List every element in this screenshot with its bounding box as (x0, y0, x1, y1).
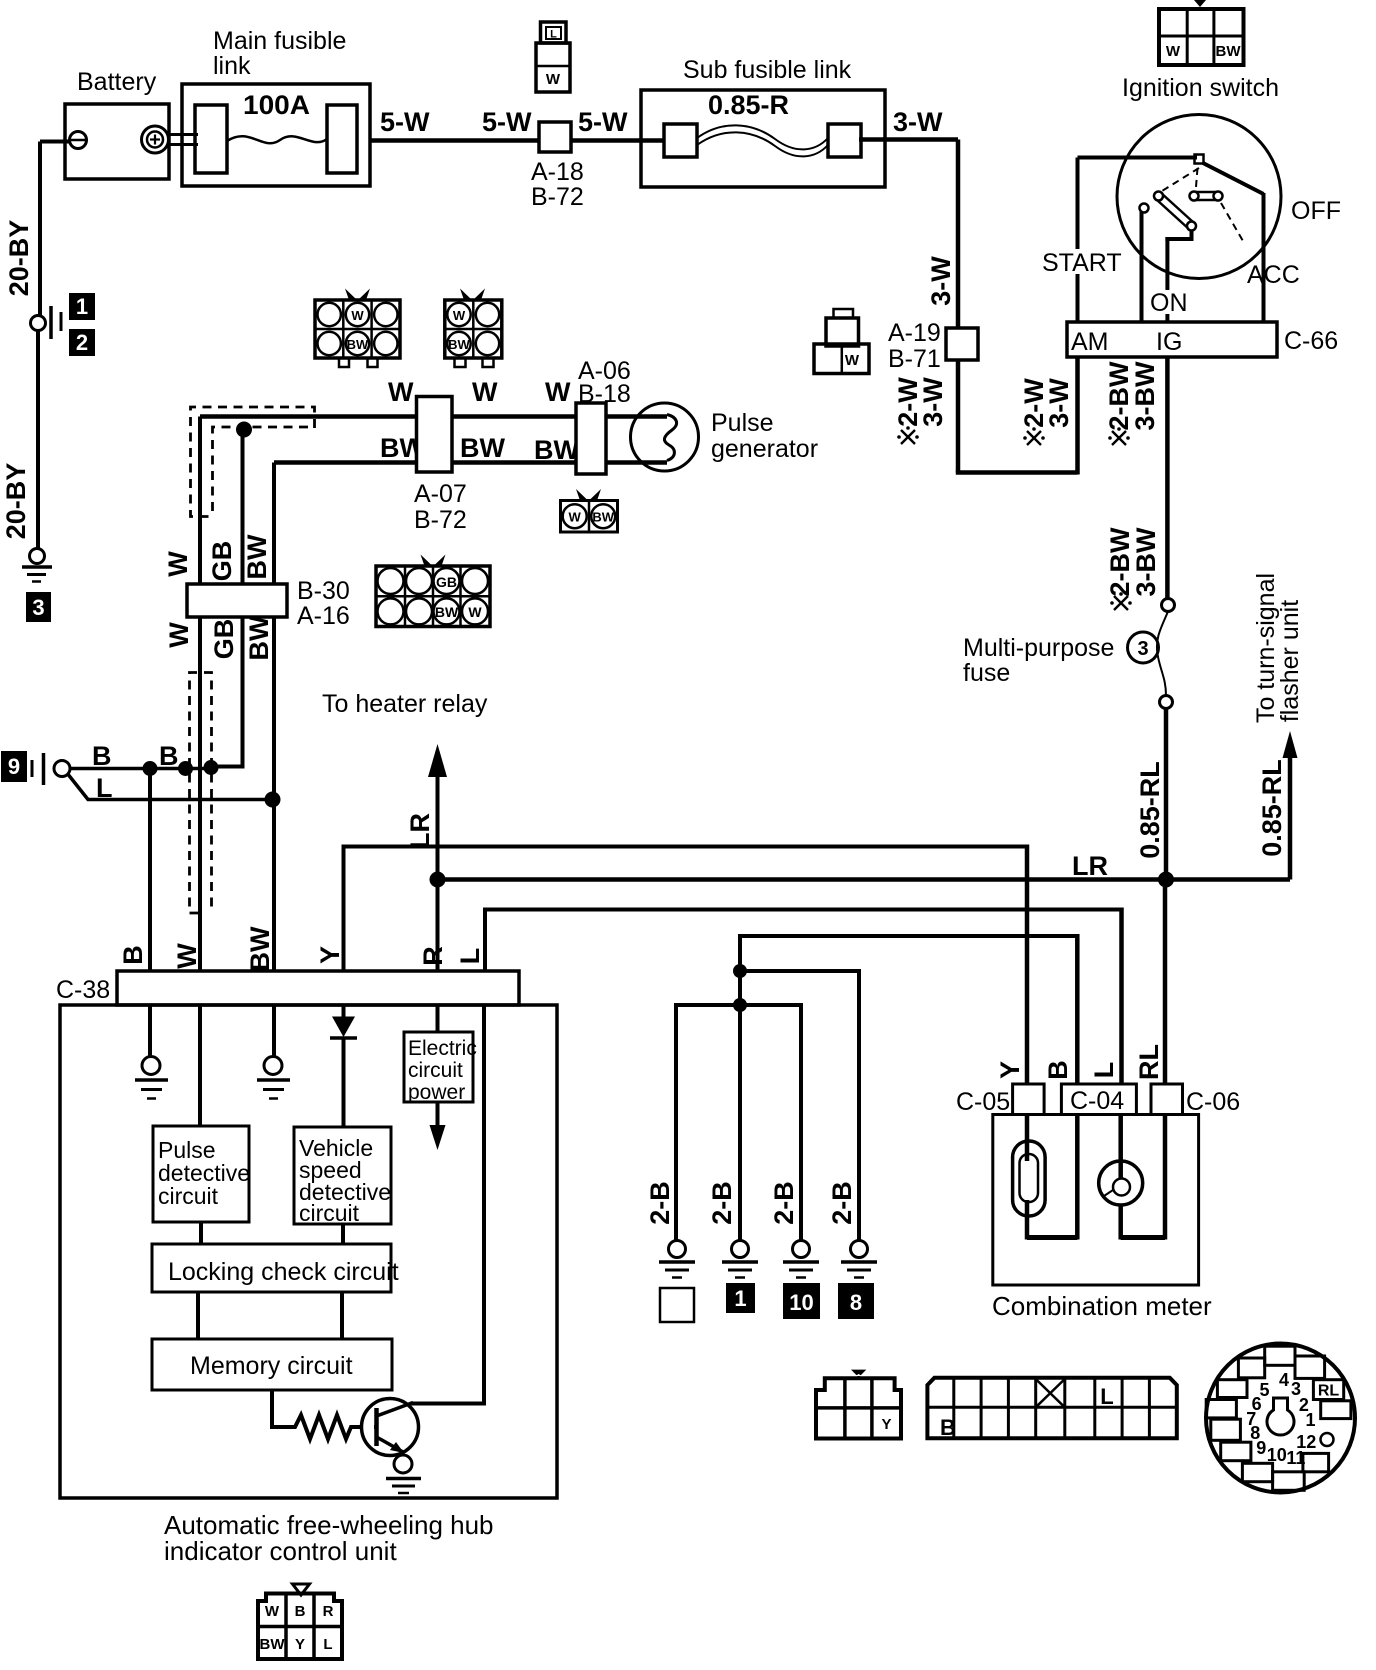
svg-text:W: W (164, 622, 194, 648)
bottom connector Y (3x2) (816, 1370, 901, 1439)
control unit box (60, 1005, 557, 1498)
wire B vertical to C-38 (148, 769, 152, 972)
ignition switch connector grid (1159, 0, 1244, 65)
lamp 1 (indicator) (1013, 1115, 1046, 1240)
svg-text:LR: LR (405, 813, 435, 849)
pulse generator (631, 403, 819, 471)
svg-text:Sub fusible link: Sub fusible link (683, 56, 852, 84)
svg-text:3-BW: 3-BW (1131, 527, 1161, 597)
combination meter box (992, 1115, 1212, 1322)
svg-text:W: W (163, 551, 193, 577)
svg-text:5-W: 5-W (578, 107, 628, 137)
svg-text:2-B: 2-B (827, 1181, 857, 1225)
svg-text:W: W (453, 308, 466, 323)
connector C-38 (56, 971, 519, 1005)
svg-text:2-B: 2-B (645, 1181, 675, 1225)
svg-text:Multi-purpose: Multi-purpose (963, 634, 1114, 662)
svg-text:C-06: C-06 (1186, 1088, 1240, 1116)
svg-text:Y: Y (881, 1416, 891, 1433)
wire ground branch y1005 (676, 1003, 801, 1240)
node B1 (143, 761, 158, 776)
connector C-06 (1151, 1084, 1240, 1116)
ground 10 (783, 1241, 819, 1319)
svg-text:B: B (92, 741, 112, 771)
svg-text:Main fusible: Main fusible (213, 27, 346, 55)
svg-text:BW: BW (347, 337, 369, 352)
lamp 2 (bulb) (1099, 1115, 1143, 1240)
svg-text:OFF: OFF (1291, 197, 1341, 225)
wire L horizontal (485, 908, 1122, 1085)
svg-text:0.85-R: 0.85-R (708, 90, 789, 120)
svg-text:generator: generator (711, 435, 818, 463)
connector A-07 B-72 (414, 397, 467, 535)
ignition switch (1040, 74, 1341, 322)
svg-text:Pulse: Pulse (711, 409, 774, 437)
pulse detective circuit box (153, 1126, 250, 1222)
C-38 terminal labels (118, 926, 485, 971)
wire to heater relay (322, 690, 488, 971)
svg-text:B: B (940, 1415, 956, 1440)
connector grid 3x2 W/BW (315, 289, 400, 368)
svg-text:W: W (388, 377, 414, 407)
svg-text:RL: RL (1318, 1383, 1340, 1400)
svg-text:ACC: ACC (1247, 261, 1300, 289)
battery (40, 68, 198, 179)
label 2-W 3-W left (893, 377, 948, 444)
wire 5-W to sub link (571, 107, 666, 141)
svg-text:L: L (455, 948, 485, 965)
wire RL to meter (1163, 880, 1168, 1085)
svg-text:10: 10 (1267, 1445, 1287, 1465)
svg-text:Electric: Electric (408, 1037, 477, 1060)
svg-text:power: power (408, 1081, 465, 1104)
locking check circuit box (152, 1244, 399, 1292)
lamp 1 return wire (1027, 1115, 1077, 1240)
ground 1/2 (31, 294, 95, 355)
wire Y horizontal (344, 845, 1028, 1085)
connector 2-circle W/BW below A-06 (561, 489, 618, 532)
svg-text:5-W: 5-W (482, 107, 532, 137)
ground 9 (2, 752, 70, 785)
svg-text:BW: BW (448, 337, 470, 352)
svg-text:0.85-RL: 0.85-RL (1135, 761, 1165, 859)
svg-text:C-04: C-04 (1070, 1087, 1124, 1115)
emitter ground (386, 1455, 421, 1493)
2-B ground wires labels (645, 1181, 857, 1225)
memory circuit box (152, 1339, 392, 1390)
svg-text:fuse: fuse (963, 659, 1010, 687)
wire ground branch y971 (740, 969, 859, 1240)
svg-text:BW: BW (592, 510, 614, 525)
meter terminal labels (995, 1044, 1164, 1080)
svg-text:B: B (159, 741, 179, 771)
svg-text:3-W: 3-W (893, 107, 943, 137)
node heater LR junction (430, 872, 446, 888)
svg-text:B-71: B-71 (888, 345, 941, 373)
svg-text:BW: BW (1216, 43, 1242, 60)
svg-text:3: 3 (1137, 638, 1148, 660)
wire 20-BY lower (1, 330, 38, 549)
sub fusible link (641, 56, 885, 187)
svg-text:3-W: 3-W (1044, 378, 1074, 428)
svg-text:BW: BW (245, 926, 275, 971)
svg-text:GB: GB (436, 574, 457, 590)
svg-text:3: 3 (32, 595, 44, 620)
vehicle speed detective circuit box (294, 1127, 391, 1226)
resistor R1 (272, 1390, 374, 1439)
labels W GB BW below B-30 (164, 615, 274, 660)
wire LR horizontal (438, 851, 1291, 881)
svg-text:100A: 100A (243, 90, 310, 120)
svg-text:BW: BW (242, 534, 272, 579)
wire B horizontal (740, 934, 1077, 1240)
svg-text:W: W (468, 604, 482, 620)
svg-text:RL: RL (1134, 1044, 1164, 1080)
node B3 (204, 760, 219, 775)
wire 0.85-RL (1135, 709, 1166, 880)
svg-text:A-19: A-19 (888, 319, 941, 347)
wire 3-W (859, 107, 958, 328)
svg-text:Y: Y (995, 1061, 1025, 1079)
wire to turn-signal flasher unit (1252, 573, 1304, 880)
labels W GB BW above B-30 (163, 534, 272, 581)
svg-text:To heater relay: To heater relay (322, 690, 488, 718)
wire B ground (70, 741, 213, 771)
svg-text:L: L (323, 1636, 332, 1653)
svg-text:LR: LR (1072, 851, 1108, 881)
wire W to pulse detective (198, 1005, 202, 1126)
svg-text:R: R (418, 946, 448, 966)
wire IG down (1105, 357, 1167, 610)
electric circuit power box (404, 1005, 477, 1150)
svg-text:indicator control unit: indicator control unit (164, 1536, 397, 1566)
svg-text:3-W: 3-W (918, 377, 948, 427)
connector C-05 (956, 1084, 1044, 1116)
multi-purpose fuse (963, 599, 1175, 709)
wire VSDC to LCC (341, 1224, 345, 1244)
svg-text:BW: BW (435, 604, 459, 620)
svg-text:20-BY: 20-BY (1, 463, 31, 540)
svg-text:9: 9 (1256, 1438, 1266, 1458)
svg-text:Memory circuit: Memory circuit (190, 1352, 353, 1380)
wire GB (211, 430, 245, 767)
wire L ground (67, 773, 273, 803)
node L-BW junction (265, 792, 281, 808)
svg-text:BW: BW (460, 433, 505, 463)
svg-text:L: L (1089, 1062, 1119, 1079)
label 2-BW 3-BW below C-66 (1104, 361, 1160, 445)
svg-text:W: W (265, 1603, 280, 1620)
bottom connector long (9x2) (927, 1378, 1176, 1440)
svg-text:W: W (351, 308, 364, 323)
svg-text:A-07: A-07 (414, 480, 467, 508)
svg-text:C-05: C-05 (956, 1088, 1010, 1116)
ground A (white box) (659, 1241, 695, 1323)
svg-text:Battery: Battery (77, 68, 157, 96)
svg-text:L: L (1100, 1384, 1113, 1409)
svg-text:IG: IG (1156, 328, 1182, 356)
svg-text:R: R (323, 1603, 334, 1620)
bottom-left connector (W B R / BW Y L) (258, 1584, 342, 1659)
wire 20-BY battery to ground (4, 142, 40, 317)
diode D1 (330, 1005, 357, 1127)
connector B-30 A-16 (187, 577, 350, 630)
svg-text:A-18: A-18 (531, 158, 584, 186)
node GB tap (236, 422, 252, 438)
svg-text:2-B: 2-B (769, 1181, 799, 1225)
connector grid 2x2 W/BW (445, 289, 502, 368)
transistor Q1 (362, 1399, 419, 1456)
lamp 2 return wire (1121, 1115, 1165, 1240)
wire L collector (411, 1005, 484, 1406)
label 2-W 3-W right (1019, 378, 1074, 445)
svg-text:circuit: circuit (299, 1200, 360, 1226)
svg-text:W: W (472, 377, 498, 407)
wires LCC to memory (198, 1292, 342, 1339)
svg-text:BW: BW (534, 435, 579, 465)
connector grid 2x4 GB/BW/W (376, 555, 490, 627)
svg-text:3-W: 3-W (926, 256, 956, 306)
wire 5-W (370, 107, 539, 141)
caption control unit (164, 1510, 494, 1566)
svg-text:Y: Y (315, 946, 345, 964)
svg-text:GB: GB (207, 541, 237, 582)
connector C-04 (1061, 1084, 1136, 1115)
svg-text:L: L (550, 29, 557, 41)
connector C-66 (1067, 322, 1338, 357)
svg-text:W: W (172, 943, 202, 969)
bottom connector round (1206, 1344, 1355, 1493)
svg-text:20-BY: 20-BY (4, 220, 34, 297)
svg-text:C-38: C-38 (56, 976, 110, 1004)
svg-text:3-BW: 3-BW (1130, 361, 1160, 431)
svg-text:2: 2 (76, 330, 88, 355)
svg-text:B: B (1043, 1060, 1073, 1080)
svg-text:B: B (295, 1603, 306, 1620)
node B branch 1 (733, 964, 747, 978)
dashed harness outline upper (191, 407, 315, 517)
svg-text:4: 4 (1279, 1370, 1289, 1390)
svg-text:W: W (546, 71, 561, 88)
connector icon W near A-19 (814, 309, 869, 374)
svg-text:1: 1 (734, 1286, 746, 1311)
wire BW pulse generator (274, 433, 667, 465)
svg-text:5-W: 5-W (380, 107, 430, 137)
ground 3 (22, 549, 52, 622)
svg-text:BW: BW (244, 615, 274, 660)
wire PDC to LCC (199, 1222, 203, 1244)
wire W vertical (198, 417, 202, 972)
svg-text:BW: BW (260, 1636, 286, 1653)
connector A-18 B-72 (531, 122, 584, 211)
svg-text:circuit: circuit (408, 1059, 463, 1082)
svg-text:B: B (118, 945, 148, 965)
svg-text:W: W (845, 352, 860, 369)
svg-text:Y: Y (295, 1636, 305, 1653)
svg-text:1: 1 (1306, 1410, 1316, 1430)
wire B internal ground (135, 1005, 168, 1099)
svg-text:START: START (1042, 249, 1122, 277)
svg-text:W: W (569, 510, 582, 525)
svg-text:Combination meter: Combination meter (992, 1291, 1212, 1321)
main fusible link (182, 27, 370, 186)
svg-text:Locking check circuit: Locking check circuit (168, 1258, 399, 1286)
wire BW internal ground (257, 1005, 290, 1099)
svg-text:GB: GB (209, 619, 239, 660)
svg-text:L: L (96, 773, 113, 803)
svg-text:ON: ON (1150, 289, 1188, 317)
svg-text:W: W (545, 377, 571, 407)
svg-text:Ignition switch: Ignition switch (1122, 74, 1279, 102)
svg-text:B-72: B-72 (531, 183, 584, 211)
svg-text:10: 10 (789, 1290, 813, 1315)
svg-text:circuit: circuit (158, 1183, 219, 1209)
svg-text:AM: AM (1071, 328, 1109, 356)
connector A-19 B-71 (888, 319, 978, 373)
svg-text:flasher unit: flasher unit (1276, 600, 1304, 722)
wire BW vertical (272, 463, 276, 972)
svg-text:B-30: B-30 (297, 577, 350, 605)
ground 1 (722, 1241, 758, 1313)
connector A-06 B-18 (576, 357, 631, 474)
node B branch 2 (733, 998, 747, 1012)
svg-text:2-B: 2-B (707, 1181, 737, 1225)
svg-text:0.85-RL: 0.85-RL (1257, 759, 1287, 857)
dashed harness outline lower (190, 673, 212, 914)
wire AM feed (956, 357, 1078, 475)
wire W pulse generator (200, 377, 667, 417)
svg-text:B-72: B-72 (414, 506, 467, 534)
svg-text:link: link (213, 52, 251, 80)
ground 8 (839, 1241, 877, 1319)
svg-text:9: 9 (8, 754, 20, 779)
svg-text:C-66: C-66 (1284, 327, 1338, 355)
svg-text:W: W (1166, 43, 1181, 60)
node B2 (178, 761, 193, 776)
connector icon L/W above A-18 (536, 22, 570, 92)
svg-text:A-16: A-16 (297, 602, 350, 630)
svg-text:1: 1 (76, 294, 88, 319)
svg-text:11: 11 (1286, 1448, 1305, 1468)
svg-text:8: 8 (850, 1290, 862, 1315)
node LR junction (1158, 872, 1174, 888)
